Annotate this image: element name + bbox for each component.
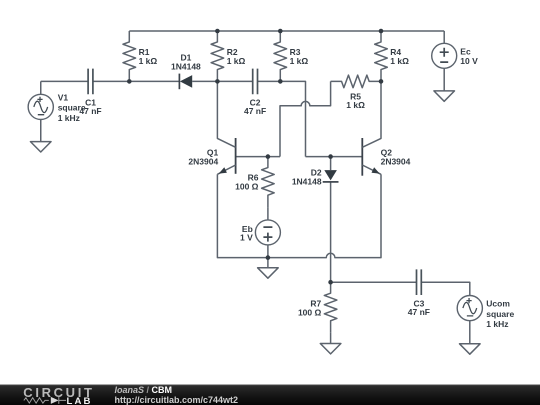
label R6 value <box>235 173 259 192</box>
resistor R7 <box>324 282 337 333</box>
svg-text:47 nF: 47 nF <box>408 307 430 317</box>
diode D1 <box>179 74 192 90</box>
label D2 value <box>292 168 322 187</box>
node junction R4 bottom / R5 / Q2 collector <box>379 79 384 84</box>
svg-text:square: square <box>486 309 514 319</box>
svg-text:http://circuitlab.com/c744wt2: http://circuitlab.com/c744wt2 <box>115 395 239 405</box>
wire feedback riser (Q1 base to R5) with hop <box>280 81 331 156</box>
label R1 value <box>139 47 158 66</box>
resistor R3 <box>274 31 287 81</box>
svg-text:10 V: 10 V <box>460 56 478 66</box>
label R3 value <box>290 47 309 66</box>
wire D1 to C2 <box>192 80 253 82</box>
node junction R4 top / supply rail <box>379 29 384 34</box>
svg-text:2N3904: 2N3904 <box>188 156 218 166</box>
label Ec value <box>460 47 478 66</box>
footer bar <box>0 385 540 405</box>
label R4 value <box>390 47 409 66</box>
svg-text:1N4148: 1N4148 <box>292 177 322 187</box>
svg-text:47 nF: 47 nF <box>79 106 101 116</box>
resistor R1 <box>123 31 136 81</box>
wire D2 lower to R7 node <box>330 182 332 282</box>
svg-text:V1: V1 <box>58 92 69 102</box>
ground (Ec) <box>434 68 455 101</box>
svg-text:1 kΩ: 1 kΩ <box>290 56 309 66</box>
label Q2 value <box>381 147 411 166</box>
capacitor C1 <box>88 69 93 95</box>
footer author/title text <box>115 385 239 405</box>
svg-text:2N3904: 2N3904 <box>381 156 411 166</box>
wire C1 to D1 <box>93 80 179 82</box>
ground (Eb) <box>258 258 279 279</box>
resistor R2 <box>211 31 224 81</box>
svg-text:100 Ω: 100 Ω <box>298 308 322 318</box>
voltage source Ec <box>432 31 457 68</box>
resistor R5 <box>331 75 381 88</box>
wire Q1 base row <box>236 156 280 158</box>
svg-text:47 nF: 47 nF <box>244 106 266 116</box>
resistor R4 <box>375 31 388 81</box>
CircuitLab logo wordmark <box>23 385 94 405</box>
voltage source V1 <box>28 81 53 119</box>
label R5 value <box>346 91 365 110</box>
label R2 value <box>227 47 246 66</box>
wire C3 to Ucom <box>421 282 470 295</box>
svg-text:1 kHz: 1 kHz <box>58 113 80 123</box>
label C3 value <box>408 298 430 317</box>
label Eb value <box>240 224 253 243</box>
voltage source Eb <box>255 207 280 257</box>
transistor Q2 <box>362 81 381 175</box>
transistor Q1 <box>217 81 235 174</box>
svg-text:1N4148: 1N4148 <box>171 62 201 72</box>
wire R7 node to C3 <box>331 281 417 283</box>
node junction R3 bottom / signal row <box>278 79 283 84</box>
node junction Q1 base / R6 top <box>266 154 271 159</box>
label R7 value <box>298 299 322 318</box>
label Ucom value <box>486 299 514 330</box>
voltage source Ucom <box>457 296 482 321</box>
node junction D2 cathode / R7 top / C3 <box>328 280 333 285</box>
ground (V1) <box>30 120 51 153</box>
svg-text:1 kΩ: 1 kΩ <box>346 100 365 110</box>
wire emitter rail with hop <box>217 174 381 257</box>
capacitor C2 <box>253 69 258 95</box>
svg-text:100 Ω: 100 Ω <box>235 182 259 192</box>
resistor R6 <box>262 157 275 208</box>
node junction Eb minus / emitter rail <box>266 255 271 260</box>
wire base row right (to Q2 base) <box>306 156 363 158</box>
label C1 value <box>79 97 101 116</box>
node junction Q2 base / D2 anode <box>328 154 333 159</box>
svg-text:1 kHz: 1 kHz <box>486 319 508 329</box>
svg-text:Ucom: Ucom <box>486 299 510 309</box>
label C2 value <box>244 97 266 116</box>
label V1 value <box>58 92 86 123</box>
node junction R2 bottom / Q1 collector <box>215 79 220 84</box>
ground (R7) <box>320 333 341 354</box>
node junction R2 top / supply rail <box>215 29 220 34</box>
node junction R3 top / supply rail <box>278 29 283 34</box>
svg-text:1 kΩ: 1 kΩ <box>227 56 246 66</box>
svg-text:LAB: LAB <box>67 396 92 405</box>
capacitor C3 <box>417 269 422 295</box>
label Q1 value <box>188 147 218 166</box>
svg-text:1 kΩ: 1 kΩ <box>390 56 409 66</box>
CircuitLab logo resistor-diode glyph <box>24 397 66 404</box>
wire top rail <box>129 30 444 32</box>
label D1 value <box>171 53 201 72</box>
ground (Ucom) <box>460 321 481 355</box>
node junction R1 bottom / input row <box>127 79 132 84</box>
svg-text:IoanaS / CBM: IoanaS / CBM <box>115 385 173 395</box>
diode D2 <box>323 157 339 182</box>
wire C2 to signal corner <box>258 81 306 156</box>
svg-text:1 kΩ: 1 kΩ <box>139 56 158 66</box>
svg-text:1 V: 1 V <box>240 233 253 243</box>
wire main row left (V1 to C1) <box>41 80 88 82</box>
